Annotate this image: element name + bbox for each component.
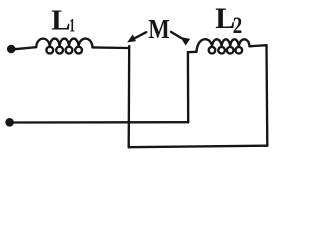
wire: top-right corner to L2 right lead [250, 45, 267, 46]
inductor L1 [36, 39, 92, 54]
mutual coupling arrow shaft (left, M to L1 branch) [135, 32, 146, 38]
terminal node (bottom-left return) [5, 118, 14, 127]
terminal node (top-left input) [7, 45, 16, 54]
wire: top-left terminal to L1 [15, 47, 37, 49]
wire: middle vertical drop from L2 left [187, 52, 190, 122]
wire: bottom horizontal run [129, 146, 268, 148]
inductor L2 [197, 39, 250, 53]
arrowhead (left arrow) [127, 34, 136, 42]
arrowhead (right arrow) [180, 37, 190, 46]
svg-text:2: 2 [233, 13, 243, 38]
wire: L2 left lead stub [188, 51, 197, 54]
svg-text:1: 1 [69, 16, 75, 37]
wire: return run to bottom-left terminal [14, 121, 189, 124]
wire: right vertical up to L2 [265, 45, 268, 146]
svg-text:L: L [51, 4, 70, 36]
wire: L1 right lead to corner [93, 46, 128, 49]
svg-text:M: M [148, 14, 170, 44]
mutual coupling arrow shaft (right, M to L2 branch) [171, 32, 181, 38]
wire: left vertical drop from L1 [128, 46, 131, 147]
